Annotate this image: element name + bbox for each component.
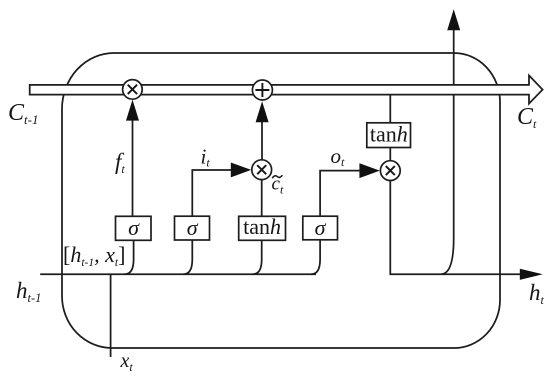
svg-text:σ: σ bbox=[128, 215, 140, 240]
svg-text:σ: σ bbox=[315, 215, 327, 240]
svg-text:tanh: tanh bbox=[370, 122, 408, 147]
svg-text:tanh: tanh bbox=[243, 214, 281, 239]
svg-text:σ: σ bbox=[187, 215, 199, 240]
